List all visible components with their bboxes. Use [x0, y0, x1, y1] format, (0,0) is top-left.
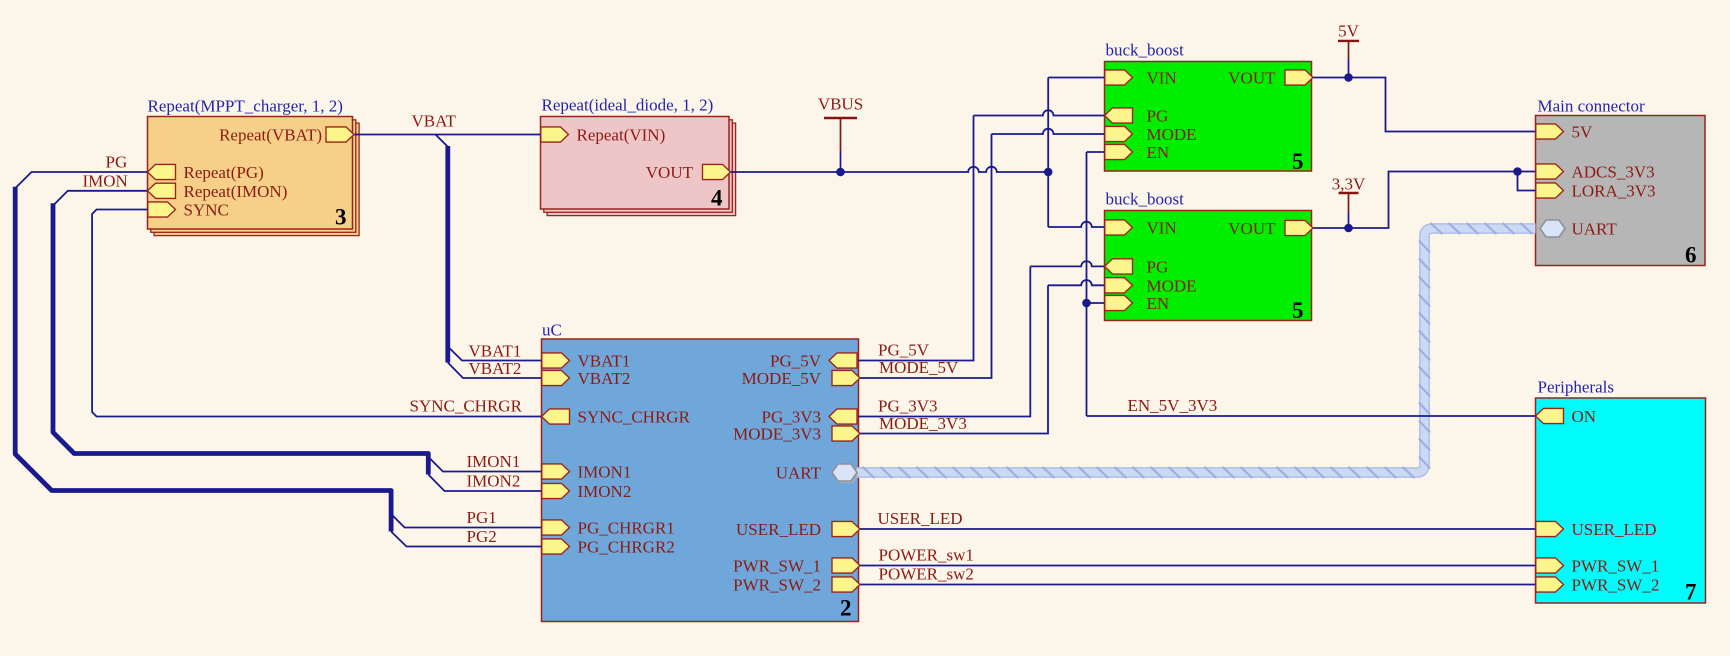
svg-text:VBAT2: VBAT2	[469, 359, 522, 378]
svg-text:PG: PG	[1147, 107, 1169, 126]
svg-text:Main connector: Main connector	[1538, 97, 1645, 116]
svg-text:VOUT: VOUT	[1228, 219, 1276, 238]
svg-text:VIN: VIN	[1147, 69, 1177, 88]
svg-text:Repeat(VBAT): Repeat(VBAT)	[219, 126, 322, 145]
svg-text:EN: EN	[1147, 143, 1170, 162]
svg-text:POWER_sw1: POWER_sw1	[879, 546, 974, 565]
svg-text:MODE_3V3: MODE_3V3	[879, 414, 967, 433]
svg-text:PWR_SW_1: PWR_SW_1	[1572, 557, 1660, 576]
svg-text:UART: UART	[1572, 220, 1618, 239]
svg-text:VBAT: VBAT	[412, 112, 457, 131]
svg-text:uC: uC	[542, 321, 562, 340]
svg-text:MODE: MODE	[1147, 125, 1197, 144]
svg-text:PG_CHRGR2: PG_CHRGR2	[578, 538, 675, 557]
svg-text:Repeat(PG): Repeat(PG)	[184, 163, 264, 182]
svg-text:VBAT2: VBAT2	[578, 369, 631, 388]
svg-text:EN_5V_3V3: EN_5V_3V3	[1128, 396, 1218, 415]
svg-text:PWR_SW_2: PWR_SW_2	[1572, 576, 1660, 595]
svg-text:7: 7	[1685, 580, 1697, 605]
svg-text:VBUS: VBUS	[818, 95, 863, 114]
svg-text:4: 4	[711, 186, 723, 211]
svg-text:PG_5V: PG_5V	[770, 352, 822, 371]
svg-text:PG: PG	[1147, 257, 1169, 276]
svg-text:3: 3	[335, 205, 347, 230]
svg-text:5V: 5V	[1572, 123, 1594, 142]
svg-text:POWER_sw2: POWER_sw2	[879, 565, 974, 584]
svg-text:MODE_5V: MODE_5V	[879, 358, 959, 377]
svg-text:VOUT: VOUT	[646, 163, 694, 182]
svg-text:MODE_3V3: MODE_3V3	[733, 425, 821, 444]
svg-text:5V: 5V	[1338, 22, 1360, 41]
svg-text:VIN: VIN	[1147, 219, 1177, 238]
svg-text:PG2: PG2	[467, 527, 497, 546]
svg-text:buck_boost: buck_boost	[1106, 41, 1185, 60]
svg-text:PWR_SW_1: PWR_SW_1	[733, 557, 821, 576]
svg-text:Peripherals: Peripherals	[1538, 378, 1614, 397]
svg-text:Repeat(VIN): Repeat(VIN)	[577, 126, 666, 145]
svg-text:UART: UART	[776, 464, 822, 483]
svg-text:EN: EN	[1147, 294, 1170, 313]
svg-text:PG1: PG1	[467, 508, 497, 527]
svg-text:SYNC_CHRGR: SYNC_CHRGR	[578, 408, 691, 427]
svg-text:Repeat(IMON): Repeat(IMON)	[184, 182, 288, 201]
svg-text:IMON1: IMON1	[467, 452, 521, 471]
svg-text:ADCS_3V3: ADCS_3V3	[1572, 163, 1655, 182]
svg-text:PG_3V3: PG_3V3	[878, 397, 938, 416]
svg-text:VBAT1: VBAT1	[578, 352, 631, 371]
svg-text:MODE: MODE	[1147, 276, 1197, 295]
svg-text:IMON1: IMON1	[578, 463, 632, 482]
svg-text:SYNC: SYNC	[184, 201, 229, 220]
svg-text:Repeat(MPPT_charger, 1, 2): Repeat(MPPT_charger, 1, 2)	[148, 97, 343, 116]
svg-text:IMON2: IMON2	[467, 472, 521, 491]
svg-text:VBAT1: VBAT1	[469, 342, 522, 361]
svg-text:MODE_5V: MODE_5V	[742, 369, 822, 388]
svg-text:SYNC_CHRGR: SYNC_CHRGR	[410, 397, 523, 416]
svg-text:Repeat(ideal_diode, 1, 2): Repeat(ideal_diode, 1, 2)	[542, 96, 714, 115]
svg-text:USER_LED: USER_LED	[878, 509, 963, 528]
svg-text:PG_5V: PG_5V	[878, 341, 930, 360]
svg-text:LORA_3V3: LORA_3V3	[1572, 182, 1656, 201]
svg-text:PG: PG	[106, 153, 128, 172]
svg-text:ON: ON	[1572, 407, 1597, 426]
svg-text:IMON2: IMON2	[578, 482, 632, 501]
svg-text:5: 5	[1292, 149, 1304, 174]
svg-text:buck_boost: buck_boost	[1106, 190, 1185, 209]
svg-text:2: 2	[840, 596, 852, 621]
svg-text:VOUT: VOUT	[1228, 69, 1276, 88]
svg-text:3,3V: 3,3V	[1332, 175, 1366, 194]
svg-text:USER_LED: USER_LED	[1572, 520, 1657, 539]
svg-text:IMON: IMON	[83, 171, 128, 190]
svg-text:6: 6	[1685, 243, 1697, 268]
svg-text:USER_LED: USER_LED	[736, 520, 821, 539]
svg-text:PWR_SW_2: PWR_SW_2	[733, 576, 821, 595]
svg-text:PG_CHRGR1: PG_CHRGR1	[578, 519, 675, 538]
svg-text:5: 5	[1292, 298, 1304, 323]
